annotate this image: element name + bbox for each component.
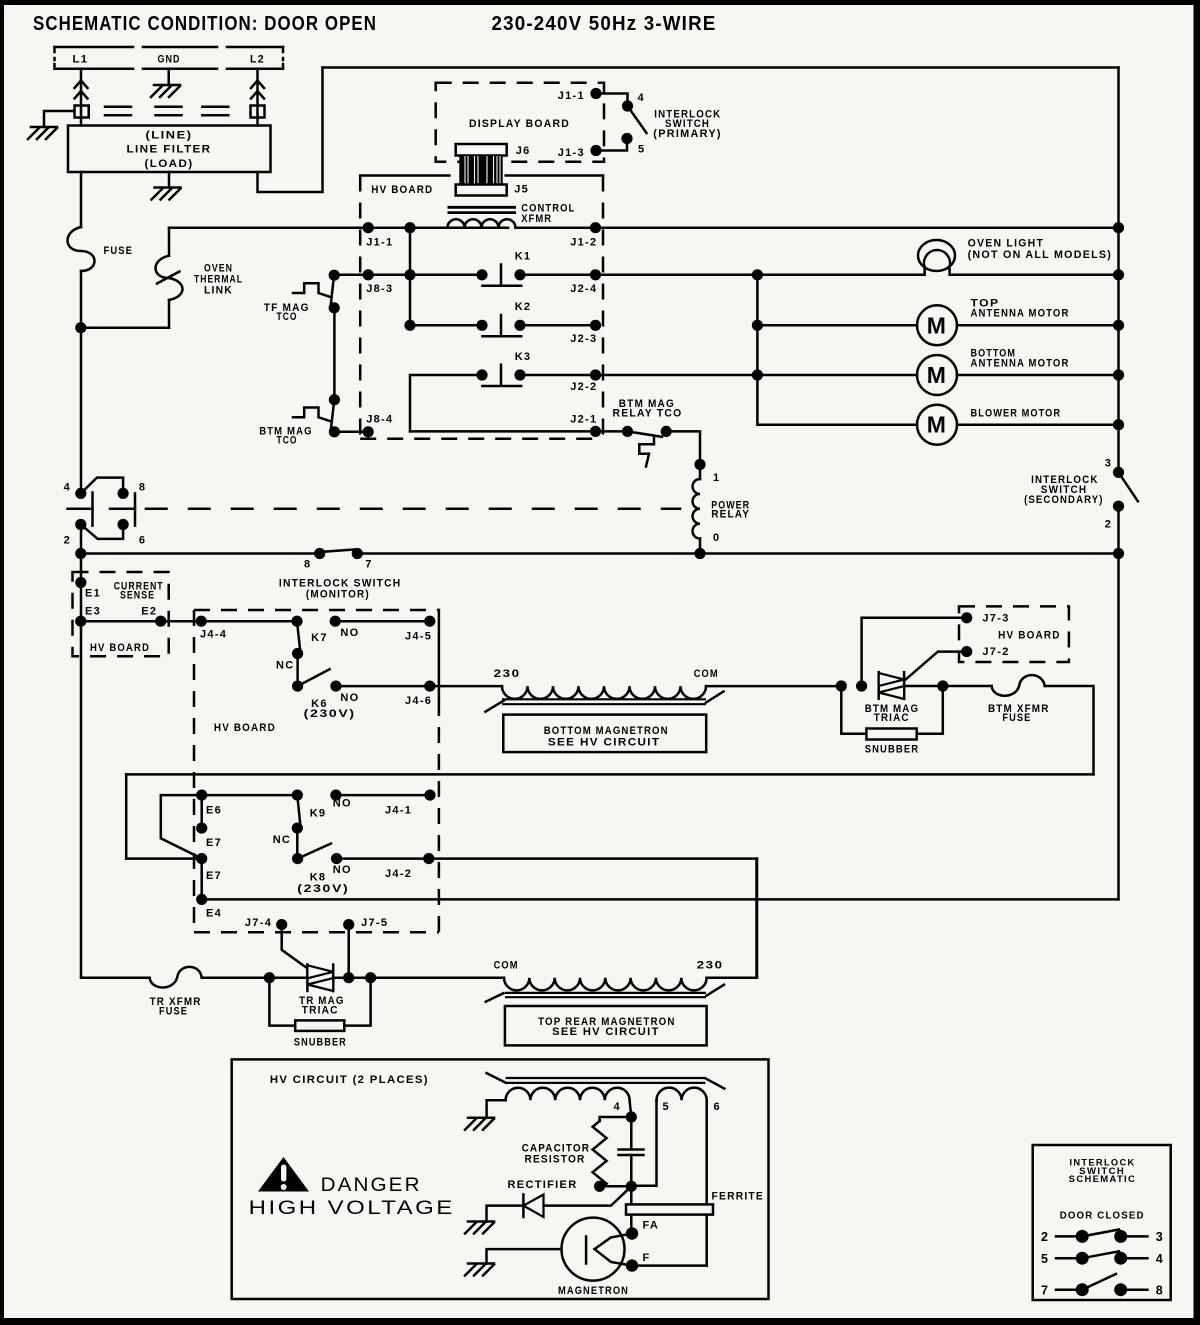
svg-text:J8-3: J8-3 bbox=[366, 283, 393, 295]
svg-text:E6: E6 bbox=[206, 805, 222, 817]
svg-text:SNUBBER: SNUBBER bbox=[294, 1037, 347, 1049]
svg-text:4: 4 bbox=[638, 92, 645, 104]
svg-text:E7: E7 bbox=[206, 870, 222, 882]
svg-text:NC: NC bbox=[276, 660, 295, 672]
svg-text:M: M bbox=[927, 412, 947, 438]
svg-text:J4-6: J4-6 bbox=[405, 695, 432, 707]
svg-text:SNUBBER: SNUBBER bbox=[865, 744, 920, 756]
svg-text:LINK: LINK bbox=[204, 284, 233, 296]
svg-text:4: 4 bbox=[614, 1101, 621, 1113]
svg-text:COM: COM bbox=[494, 960, 519, 972]
svg-text:E7: E7 bbox=[206, 837, 222, 849]
svg-text:K8: K8 bbox=[310, 872, 327, 884]
svg-text:(LOAD): (LOAD) bbox=[145, 158, 194, 170]
svg-text:230: 230 bbox=[697, 960, 724, 972]
svg-text:(PRIMARY): (PRIMARY) bbox=[653, 128, 722, 140]
svg-text:5: 5 bbox=[1041, 1252, 1049, 1266]
svg-text:TCO: TCO bbox=[277, 435, 298, 447]
svg-text:(230V): (230V) bbox=[297, 883, 349, 895]
svg-text:BLOWER MOTOR: BLOWER MOTOR bbox=[971, 408, 1062, 420]
svg-text:HV BOARD: HV BOARD bbox=[371, 184, 433, 196]
svg-text:E2: E2 bbox=[141, 606, 157, 618]
svg-text:J1-2: J1-2 bbox=[570, 237, 597, 249]
svg-text:6: 6 bbox=[139, 535, 146, 547]
svg-text:DANGER: DANGER bbox=[321, 1174, 422, 1196]
svg-text:M: M bbox=[927, 362, 947, 388]
svg-text:FUSE: FUSE bbox=[1002, 712, 1031, 724]
svg-text:K9: K9 bbox=[310, 808, 327, 820]
svg-text:NO: NO bbox=[340, 627, 359, 639]
svg-text:FERRITE: FERRITE bbox=[712, 1191, 765, 1203]
svg-text:0: 0 bbox=[713, 532, 720, 544]
svg-text:NC: NC bbox=[273, 834, 292, 846]
svg-text:J7-4: J7-4 bbox=[245, 917, 272, 929]
svg-text:COM: COM bbox=[694, 668, 719, 680]
svg-text:SENSE: SENSE bbox=[120, 590, 155, 602]
svg-text:LINE FILTER: LINE FILTER bbox=[127, 144, 212, 156]
svg-text:K3: K3 bbox=[515, 351, 532, 363]
svg-text:NO: NO bbox=[333, 864, 352, 876]
svg-text:RELAY TCO: RELAY TCO bbox=[613, 408, 683, 420]
svg-text:SCHEMATIC: SCHEMATIC bbox=[1069, 1174, 1137, 1184]
svg-text:(230V): (230V) bbox=[304, 708, 356, 720]
svg-text:HV BOARD: HV BOARD bbox=[214, 722, 276, 734]
svg-text:(SECONDARY): (SECONDARY) bbox=[1024, 494, 1104, 506]
svg-text:2: 2 bbox=[64, 535, 71, 547]
svg-text:2: 2 bbox=[1041, 1230, 1049, 1244]
svg-text:RELAY: RELAY bbox=[711, 509, 750, 521]
svg-text:RESISTOR: RESISTOR bbox=[525, 1154, 586, 1166]
svg-text:7: 7 bbox=[1041, 1283, 1049, 1297]
svg-text:SEE HV CIRCUIT: SEE HV CIRCUIT bbox=[552, 1026, 660, 1038]
svg-text:8: 8 bbox=[1156, 1283, 1164, 1297]
svg-text:J5: J5 bbox=[514, 184, 529, 196]
svg-text:ANTENNA MOTOR: ANTENNA MOTOR bbox=[971, 358, 1070, 370]
svg-text:1: 1 bbox=[713, 472, 720, 484]
svg-text:3: 3 bbox=[1105, 458, 1112, 470]
svg-text:J2-2: J2-2 bbox=[570, 381, 597, 393]
svg-text:HV BOARD: HV BOARD bbox=[998, 630, 1061, 642]
svg-text:J8-4: J8-4 bbox=[366, 413, 393, 425]
svg-text:K1: K1 bbox=[515, 251, 532, 263]
svg-text:J6: J6 bbox=[516, 145, 531, 157]
svg-text:NO: NO bbox=[340, 692, 359, 704]
svg-text:J7-3: J7-3 bbox=[982, 613, 1009, 625]
svg-text:J4-1: J4-1 bbox=[385, 805, 412, 817]
svg-text:(LINE): (LINE) bbox=[146, 130, 193, 142]
svg-text:SCHEMATIC CONDITION: DOOR OPEN: SCHEMATIC CONDITION: DOOR OPEN bbox=[33, 12, 377, 35]
svg-text:(MONITOR): (MONITOR) bbox=[306, 588, 370, 600]
svg-text:FUSE: FUSE bbox=[159, 1006, 188, 1018]
svg-text:HV BOARD: HV BOARD bbox=[90, 642, 150, 654]
svg-text:J7-5: J7-5 bbox=[361, 917, 388, 929]
svg-text:TRIAC: TRIAC bbox=[302, 1005, 339, 1017]
svg-text:J1-1: J1-1 bbox=[558, 90, 585, 102]
svg-text:DOOR CLOSED: DOOR CLOSED bbox=[1060, 1210, 1145, 1222]
svg-text:4: 4 bbox=[1156, 1252, 1164, 1266]
svg-text:FUSE: FUSE bbox=[104, 245, 134, 257]
svg-text:ANTENNA MOTOR: ANTENNA MOTOR bbox=[971, 308, 1070, 320]
svg-text:M: M bbox=[927, 312, 947, 338]
svg-text:K2: K2 bbox=[515, 301, 532, 313]
svg-text:L2: L2 bbox=[250, 54, 265, 66]
svg-text:5: 5 bbox=[638, 144, 645, 156]
svg-text:J4-2: J4-2 bbox=[385, 868, 412, 880]
svg-text:230-240V 50Hz 3-WIRE: 230-240V 50Hz 3-WIRE bbox=[492, 12, 717, 35]
svg-text:6: 6 bbox=[714, 1101, 721, 1113]
svg-text:3: 3 bbox=[1156, 1230, 1164, 1244]
svg-text:XFMR: XFMR bbox=[521, 213, 552, 225]
svg-text:RECTIFIER: RECTIFIER bbox=[508, 1179, 578, 1191]
svg-text:GND: GND bbox=[158, 54, 181, 66]
svg-text:8: 8 bbox=[139, 482, 146, 494]
svg-text:HIGH VOLTAGE: HIGH VOLTAGE bbox=[249, 1197, 455, 1219]
svg-text:TCO: TCO bbox=[277, 311, 298, 323]
svg-text:J1-3: J1-3 bbox=[558, 147, 585, 159]
svg-text:J4-4: J4-4 bbox=[200, 629, 227, 641]
svg-text:(NOT ON ALL MODELS): (NOT ON ALL MODELS) bbox=[968, 249, 1113, 261]
svg-text:E3: E3 bbox=[85, 606, 101, 618]
svg-text:BOTTOM MAGNETRON: BOTTOM MAGNETRON bbox=[544, 725, 669, 737]
svg-text:SEE HV CIRCUIT: SEE HV CIRCUIT bbox=[548, 737, 661, 749]
svg-text:5: 5 bbox=[663, 1101, 670, 1113]
svg-text:L1: L1 bbox=[73, 54, 89, 66]
svg-text:E1: E1 bbox=[85, 588, 101, 600]
svg-text:E4: E4 bbox=[206, 908, 222, 920]
svg-text:FA: FA bbox=[643, 1220, 660, 1232]
svg-text:8: 8 bbox=[304, 559, 311, 571]
svg-text:230: 230 bbox=[494, 668, 521, 680]
svg-text:7: 7 bbox=[365, 559, 372, 571]
svg-text:J2-1: J2-1 bbox=[570, 413, 597, 425]
svg-text:HV CIRCUIT (2 PLACES): HV CIRCUIT (2 PLACES) bbox=[270, 1074, 429, 1086]
svg-text:J2-3: J2-3 bbox=[570, 333, 597, 345]
svg-text:TRIAC: TRIAC bbox=[874, 712, 910, 724]
svg-text:MAGNETRON: MAGNETRON bbox=[558, 1285, 629, 1297]
svg-text:OVEN LIGHT: OVEN LIGHT bbox=[968, 238, 1045, 250]
svg-text:F: F bbox=[643, 1252, 651, 1264]
svg-text:J4-5: J4-5 bbox=[405, 631, 432, 643]
svg-text:NO: NO bbox=[333, 798, 352, 810]
svg-text:2: 2 bbox=[1105, 519, 1112, 531]
svg-text:J2-4: J2-4 bbox=[570, 283, 597, 295]
svg-text:DISPLAY BOARD: DISPLAY BOARD bbox=[469, 118, 570, 130]
svg-text:J7-2: J7-2 bbox=[982, 646, 1009, 658]
svg-text:4: 4 bbox=[64, 482, 71, 494]
svg-text:J1-1: J1-1 bbox=[366, 237, 393, 249]
svg-text:K7: K7 bbox=[311, 632, 328, 644]
